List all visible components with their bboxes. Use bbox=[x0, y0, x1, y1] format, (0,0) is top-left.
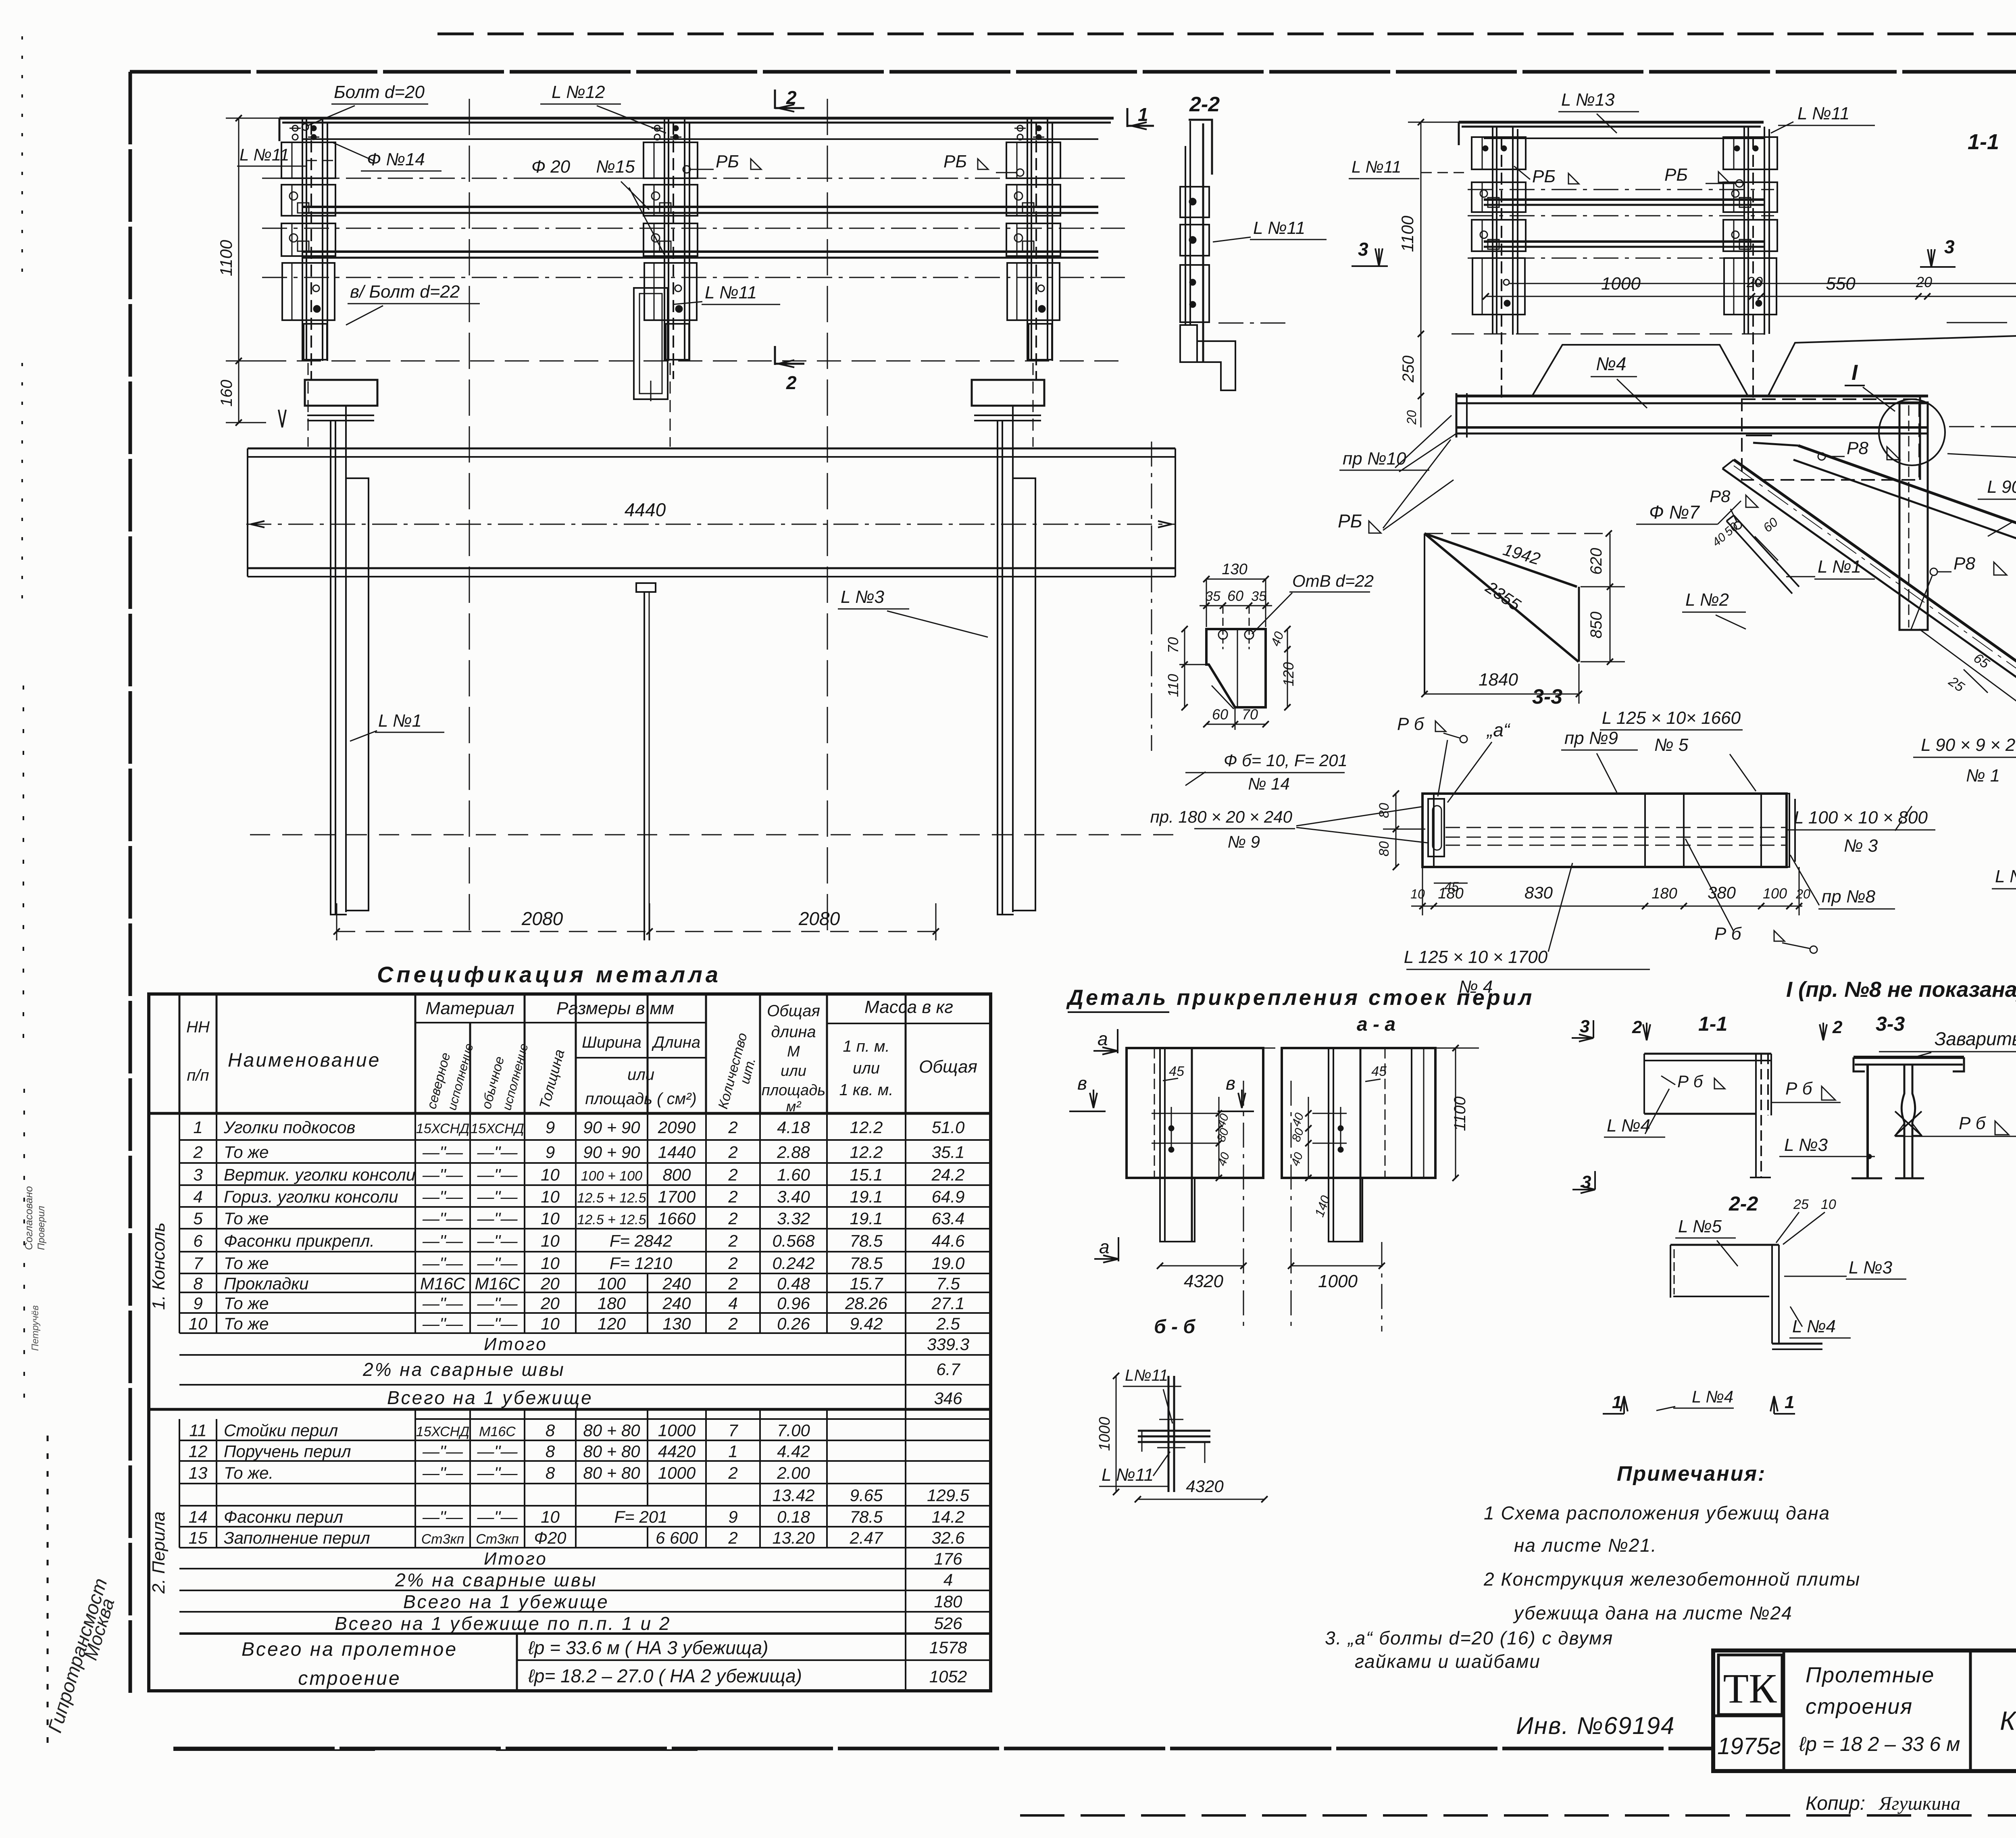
svg-text:6.7: 6.7 bbox=[936, 1360, 960, 1379]
svg-text:М16С: М16С bbox=[475, 1274, 520, 1293]
a-a left post bbox=[1154, 1048, 1155, 1178]
svg-text:L 90 × 9 × 2090: L 90 × 9 × 2090 bbox=[1921, 735, 2016, 755]
sheet outer edge top dashed line bbox=[437, 33, 2016, 35]
svg-text:1: 1 bbox=[193, 1118, 202, 1137]
svg-text:L №4: L №4 bbox=[1607, 1116, 1650, 1136]
section line 1 mark bbox=[1127, 108, 1129, 127]
svg-text:80 + 80: 80 + 80 bbox=[583, 1442, 640, 1461]
svg-text:4.18: 4.18 bbox=[777, 1118, 810, 1137]
plate N14 outline bbox=[1206, 629, 1266, 707]
elevation dashdot tie line 1 bbox=[262, 178, 1125, 179]
svg-text:90 + 90: 90 + 90 bbox=[583, 1118, 640, 1137]
spec table section2 band bbox=[414, 1409, 416, 1419]
svg-text:Р8: Р8 bbox=[1847, 438, 1868, 458]
svg-text:2: 2 bbox=[1832, 1017, 1843, 1037]
svg-text:15.7: 15.7 bbox=[850, 1274, 883, 1293]
svg-text:L №11: L №11 bbox=[1797, 104, 1849, 123]
svg-text:1-1: 1-1 bbox=[1698, 1013, 1727, 1035]
svg-text:НН: НН bbox=[186, 1018, 210, 1036]
svg-text:Уголки подкосов: Уголки подкосов bbox=[223, 1118, 355, 1137]
svg-text:РБ: РБ bbox=[943, 152, 967, 171]
svg-text:или: или bbox=[853, 1059, 880, 1077]
inner frame top bbox=[130, 70, 2016, 74]
svg-text:1000: 1000 bbox=[1318, 1271, 1358, 1291]
1-1 brace end angle piece bbox=[1727, 515, 1799, 594]
detail 1-1 beam bbox=[1644, 1053, 1771, 1055]
svg-text:L №1: L №1 bbox=[1995, 867, 2016, 886]
svg-text:L 125 × 10 × 1700: L 125 × 10 × 1700 bbox=[1404, 947, 1548, 967]
svg-text:Гориз. уголки консоли: Гориз. уголки консоли bbox=[224, 1187, 398, 1206]
svg-text:4420: 4420 bbox=[658, 1442, 696, 1461]
svg-text:2: 2 bbox=[728, 1254, 737, 1273]
svg-text:Ст3кп: Ст3кп bbox=[476, 1532, 519, 1547]
1-1 detail circle I bbox=[1879, 399, 1945, 465]
svg-text:п/п: п/п bbox=[187, 1067, 209, 1084]
svg-text:1578: 1578 bbox=[929, 1638, 967, 1657]
svg-text:пр №9: пр №9 bbox=[1564, 728, 1618, 748]
spec table header lines bbox=[415, 1022, 706, 1023]
svg-text:М: М bbox=[787, 1043, 800, 1060]
svg-text:длина: длина bbox=[771, 1023, 816, 1041]
elevation top rail L12 bbox=[279, 117, 1114, 120]
svg-text:1 кв. м.: 1 кв. м. bbox=[839, 1081, 893, 1099]
svg-text:L №12: L №12 bbox=[552, 82, 605, 102]
svg-text:1: 1 bbox=[728, 1442, 737, 1461]
svg-text:2 Конструкция железобетонной: 2 Конструкция железобетонной плиты bbox=[1483, 1569, 1860, 1590]
section line 2 lower bbox=[774, 346, 776, 365]
svg-text:Копир:: Копир: bbox=[1806, 1793, 1865, 1814]
1-1 console dashed pocket bbox=[1742, 399, 1919, 480]
3-3 stiffener right bbox=[1761, 794, 1789, 867]
inner frame left bbox=[129, 72, 132, 1696]
svg-text:№ 5: № 5 bbox=[1654, 735, 1689, 755]
svg-text:24.2: 24.2 bbox=[931, 1165, 965, 1184]
svg-text:Р8: Р8 bbox=[1954, 554, 1975, 573]
svg-text:Всего на 1 убежище по п.: Всего на 1 убежище по п.п. 1 и 2 bbox=[335, 1613, 671, 1634]
a-a left bolt grid bbox=[1152, 1113, 1219, 1114]
3-3 stiffener mid bbox=[1645, 794, 1684, 867]
plate N14 dim 35 60 35 bbox=[1200, 605, 1272, 606]
column under post3 bbox=[972, 380, 1044, 406]
svg-text:2: 2 bbox=[728, 1274, 737, 1293]
svg-text:12.2: 12.2 bbox=[850, 1118, 883, 1137]
svg-text:9: 9 bbox=[728, 1507, 737, 1526]
svg-text:70: 70 bbox=[1242, 706, 1258, 723]
svg-text:а - а: а - а bbox=[1357, 1014, 1395, 1035]
walkway hidden line bbox=[250, 834, 1173, 836]
1-1 diagonal brace N2 bbox=[1798, 446, 2016, 584]
svg-text:2: 2 bbox=[728, 1528, 737, 1547]
svg-text:ℓр = 33.6 м ( НА 3 убежищ: ℓр = 33.6 м ( НА 3 убежища) bbox=[528, 1637, 768, 1658]
svg-text:3-3: 3-3 bbox=[1532, 685, 1562, 709]
svg-text:убежища дана на листе №24: убежища дана на листе №24 bbox=[1513, 1603, 1793, 1623]
column under post1 bbox=[305, 380, 377, 406]
svg-text:4.42: 4.42 bbox=[777, 1442, 810, 1461]
svg-text:28.26: 28.26 bbox=[845, 1294, 888, 1313]
svg-text:0.568: 0.568 bbox=[772, 1232, 815, 1250]
svg-text:РБ: РБ bbox=[716, 152, 739, 171]
svg-text:2.00: 2.00 bbox=[777, 1463, 810, 1482]
svg-text:240: 240 bbox=[662, 1294, 691, 1313]
svg-text:Пролетные: Пролетные bbox=[1806, 1663, 1935, 1687]
svg-text:0.26: 0.26 bbox=[777, 1314, 810, 1333]
svg-text:№ 14: № 14 bbox=[1248, 774, 1290, 793]
svg-text:7.5: 7.5 bbox=[936, 1274, 960, 1293]
svg-text:L №1: L №1 bbox=[378, 711, 422, 731]
svg-text:Согласовано: Согласовано bbox=[23, 1186, 35, 1250]
svg-text:19.1: 19.1 bbox=[850, 1209, 883, 1228]
svg-text:2.88: 2.88 bbox=[777, 1143, 810, 1162]
svg-text:10: 10 bbox=[541, 1507, 560, 1526]
elevation hanging angle L11 below post2 bbox=[634, 288, 668, 399]
svg-text:100: 100 bbox=[1763, 885, 1787, 902]
svg-text:45: 45 bbox=[1169, 1064, 1184, 1079]
svg-text:44.6: 44.6 bbox=[932, 1232, 965, 1250]
svg-text:2: 2 bbox=[786, 372, 797, 393]
plate N14 right dims 90 120 bbox=[1287, 629, 1288, 707]
svg-text:15ХСНД: 15ХСНД bbox=[416, 1424, 469, 1440]
svg-text:15ХСНД: 15ХСНД bbox=[416, 1121, 469, 1136]
svg-text:13: 13 bbox=[189, 1463, 208, 1482]
svg-text:Ф №14: Ф №14 bbox=[367, 150, 425, 169]
svg-text:Итого: Итого bbox=[484, 1334, 548, 1354]
svg-text:—''—: —''— bbox=[422, 1463, 463, 1482]
svg-text:14: 14 bbox=[189, 1507, 208, 1526]
svg-text:гайками и шайбами: гайками и шайбами bbox=[1355, 1651, 1541, 1672]
1-1 console beam N4 bbox=[1456, 395, 1928, 398]
svg-text:4320: 4320 bbox=[1186, 1477, 1224, 1496]
svg-text:Итого: Итого bbox=[484, 1549, 548, 1569]
svg-text:250: 250 bbox=[1400, 356, 1417, 383]
svg-text:20: 20 bbox=[1916, 274, 1932, 290]
svg-text:L №4: L №4 bbox=[1692, 1387, 1733, 1406]
svg-text:2.47: 2.47 bbox=[850, 1528, 883, 1547]
svg-text:L №3: L №3 bbox=[1849, 1258, 1893, 1277]
svg-text:160: 160 bbox=[218, 380, 235, 407]
triangle bottom dim 1840 bbox=[1425, 694, 1579, 695]
svg-text:1000: 1000 bbox=[1096, 1417, 1113, 1451]
1-1 dashdot ties bbox=[1468, 189, 1774, 190]
a-a right post bbox=[1328, 1048, 1329, 1242]
walkway bottom lines bbox=[248, 567, 1175, 569]
svg-text:620: 620 bbox=[1587, 548, 1605, 575]
svg-text:—''—: —''— bbox=[477, 1187, 518, 1206]
post hidden dashes to walkway bbox=[308, 363, 309, 447]
svg-text:5: 5 bbox=[193, 1209, 203, 1228]
svg-text:13.42: 13.42 bbox=[772, 1486, 814, 1505]
plate N14 left dims 70 110 bbox=[1184, 629, 1185, 707]
svg-text:1840: 1840 bbox=[1479, 670, 1518, 690]
svg-text:№ 3: № 3 bbox=[1844, 836, 1878, 856]
svg-text:7: 7 bbox=[728, 1421, 738, 1440]
svg-text:Поручень перил: Поручень перил bbox=[224, 1442, 351, 1461]
svg-text:78.5: 78.5 bbox=[850, 1232, 883, 1250]
svg-text:2-2: 2-2 bbox=[1189, 93, 1220, 116]
svg-text:F= 1210: F= 1210 bbox=[610, 1254, 673, 1273]
dim 2080 2080 bottom bbox=[337, 931, 936, 932]
svg-text:ℓр = 18 2 – 33 6 м: ℓр = 18 2 – 33 6 м bbox=[1799, 1733, 1960, 1755]
svg-text:7.00: 7.00 bbox=[777, 1421, 810, 1440]
svg-text:Р б: Р б bbox=[1677, 1072, 1704, 1091]
svg-text:830: 830 bbox=[1524, 883, 1553, 902]
spec table 2percent row 1 bbox=[179, 1355, 180, 1385]
svg-text:Проверил: Проверил bbox=[36, 1206, 47, 1250]
svg-text:20: 20 bbox=[1404, 410, 1419, 425]
svg-text:6 600: 6 600 bbox=[656, 1528, 698, 1547]
svg-text:—''—: —''— bbox=[422, 1232, 463, 1250]
svg-text:0.48: 0.48 bbox=[777, 1274, 810, 1293]
svg-text:8: 8 bbox=[546, 1421, 555, 1440]
1-1 bottom dashed bbox=[1452, 333, 1774, 335]
svg-text:70: 70 bbox=[1165, 637, 1181, 653]
svg-text:Фасонки перил: Фасонки перил bbox=[224, 1507, 343, 1526]
svg-text:4: 4 bbox=[943, 1570, 953, 1589]
svg-text:—''—: —''— bbox=[477, 1232, 518, 1250]
svg-text:64.9: 64.9 bbox=[932, 1187, 965, 1206]
svg-text:9: 9 bbox=[193, 1294, 202, 1313]
svg-text:27.1: 27.1 bbox=[931, 1294, 965, 1313]
svg-text:15.1: 15.1 bbox=[850, 1165, 883, 1184]
svg-text:25: 25 bbox=[1793, 1197, 1809, 1212]
svg-text:—''—: —''— bbox=[477, 1507, 518, 1526]
dim 1100 left bbox=[238, 118, 240, 361]
section 2-2 bottom bracket bbox=[1180, 325, 1197, 362]
svg-text:10: 10 bbox=[541, 1209, 560, 1228]
svg-text:Заварить: Заварить bbox=[1935, 1028, 2016, 1049]
svg-text:Прокладки: Прокладки bbox=[224, 1274, 308, 1293]
svg-text:80: 80 bbox=[1377, 803, 1392, 818]
svg-text:Ф20: Ф20 bbox=[534, 1528, 566, 1547]
svg-text:Петручёв: Петручёв bbox=[30, 1305, 41, 1351]
svg-text:Ф №7: Ф №7 bbox=[1649, 502, 1700, 523]
svg-text:90 + 90: 90 + 90 bbox=[583, 1143, 640, 1162]
svg-text:10: 10 bbox=[541, 1187, 560, 1206]
svg-text:Ст3кп: Ст3кп bbox=[421, 1532, 464, 1547]
svg-text:L №1: L №1 bbox=[1818, 557, 1861, 577]
svg-text:—''—: —''— bbox=[422, 1507, 463, 1526]
svg-text:2. Перила: 2. Перила bbox=[149, 1511, 169, 1594]
svg-text:80 + 80: 80 + 80 bbox=[583, 1463, 640, 1482]
svg-text:78.5: 78.5 bbox=[850, 1507, 883, 1526]
svg-text:Р8: Р8 bbox=[1710, 487, 1731, 506]
svg-text:1440: 1440 bbox=[658, 1143, 696, 1162]
svg-text:—''—: —''— bbox=[477, 1165, 518, 1184]
svg-text:—''—: —''— bbox=[422, 1209, 463, 1228]
a-a right bolt grid bbox=[1312, 1113, 1347, 1114]
svg-text:—''—: —''— bbox=[477, 1463, 518, 1482]
svg-text:То же: То же bbox=[224, 1294, 269, 1313]
svg-text:3: 3 bbox=[193, 1165, 202, 1184]
svg-text:L №11: L №11 bbox=[1102, 1465, 1154, 1485]
svg-text:—''—: —''— bbox=[477, 1209, 518, 1228]
1-1 dashdot flange level bbox=[1949, 426, 2016, 427]
svg-text:3.40: 3.40 bbox=[777, 1187, 810, 1206]
spec table rows section 1 bbox=[179, 1139, 991, 1141]
svg-text:346: 346 bbox=[934, 1389, 962, 1408]
svg-text:6: 6 bbox=[193, 1232, 203, 1250]
svg-text:2% на сварные швы: 2% на сварные швы bbox=[362, 1359, 565, 1380]
svg-text:32.6: 32.6 bbox=[932, 1528, 965, 1547]
svg-text:F= 201: F= 201 bbox=[614, 1507, 668, 1526]
svg-text:РБ: РБ bbox=[1664, 165, 1688, 185]
svg-text:10: 10 bbox=[541, 1254, 560, 1273]
1-1 brace N1 centre dash bbox=[1734, 466, 2016, 790]
svg-text:1100: 1100 bbox=[1451, 1096, 1469, 1131]
left margin dotted guide bbox=[21, 36, 23, 282]
svg-text:120: 120 bbox=[598, 1314, 626, 1333]
svg-text:180: 180 bbox=[598, 1294, 626, 1313]
elevation post 3 bbox=[1027, 119, 1028, 361]
svg-text:Деталь прикрепления стоек п: Деталь прикрепления стоек перил bbox=[1066, 986, 1534, 1010]
svg-text:35: 35 bbox=[1251, 589, 1266, 604]
svg-text:10: 10 bbox=[541, 1232, 560, 1250]
svg-text:35.1: 35.1 bbox=[932, 1143, 965, 1162]
svg-text:10: 10 bbox=[1821, 1197, 1836, 1212]
elevation rail B bbox=[303, 250, 1098, 253]
svg-text:3. „а“ болты d=20 (16) с д: 3. „а“ болты d=20 (16) с двумя bbox=[1325, 1628, 1613, 1648]
svg-text:или: или bbox=[781, 1063, 806, 1079]
svg-text:L №3: L №3 bbox=[1784, 1135, 1828, 1155]
svg-text:4: 4 bbox=[728, 1294, 737, 1313]
svg-text:—''—: —''— bbox=[477, 1294, 518, 1313]
svg-text:Р б: Р б bbox=[1397, 714, 1425, 734]
svg-text:1: 1 bbox=[1138, 104, 1148, 125]
svg-text:3-3: 3-3 bbox=[1876, 1013, 1905, 1035]
b-b dim 1000 bbox=[1116, 1376, 1117, 1492]
svg-text:9: 9 bbox=[546, 1143, 555, 1162]
plate N14 bolt holes bbox=[1218, 630, 1227, 639]
svg-text:100: 100 bbox=[598, 1274, 626, 1293]
svg-text:Спецификация металла: Спецификация металла bbox=[377, 962, 721, 987]
svg-text:L №11: L №11 bbox=[705, 283, 757, 302]
svg-text:12.5 + 12.5: 12.5 + 12.5 bbox=[577, 1212, 646, 1227]
svg-text:1.60: 1.60 bbox=[777, 1165, 810, 1184]
a-a right grid dims bbox=[1308, 1097, 1309, 1178]
svg-text:—''—: —''— bbox=[422, 1187, 463, 1206]
svg-text:176: 176 bbox=[934, 1549, 962, 1568]
svg-text:—''—: —''— bbox=[477, 1254, 518, 1273]
b-b dim 4320 bbox=[1138, 1499, 1264, 1500]
svg-text:I (пр. №8 не показана): I (пр. №8 не показана) bbox=[1786, 977, 2016, 1002]
svg-text:2: 2 bbox=[728, 1314, 737, 1333]
triangle right dim 620 850 bbox=[1610, 533, 1611, 662]
svg-text:15ХСНД: 15ХСНД bbox=[471, 1121, 524, 1136]
svg-text:2080: 2080 bbox=[521, 908, 563, 929]
svg-text:9: 9 bbox=[546, 1118, 555, 1137]
svg-text:Всего на 1 убежище: Всего на 1 убежище bbox=[403, 1591, 609, 1612]
a-a beam band left bbox=[1127, 1048, 1263, 1178]
svg-text:15: 15 bbox=[189, 1528, 208, 1547]
svg-text:1100: 1100 bbox=[1398, 215, 1417, 252]
svg-text:526: 526 bbox=[934, 1614, 962, 1633]
svg-text:Материал: Материал bbox=[425, 998, 514, 1018]
a-a left grid dims bbox=[1218, 1097, 1220, 1178]
svg-text:0.18: 0.18 bbox=[777, 1507, 810, 1526]
svg-text:Фасонки прикрепл.: Фасонки прикрепл. bbox=[224, 1232, 375, 1250]
svg-text:13.20: 13.20 bbox=[772, 1528, 815, 1547]
svg-text:130: 130 bbox=[662, 1314, 691, 1333]
svg-text:—''—: —''— bbox=[477, 1314, 518, 1333]
svg-text:80 + 80: 80 + 80 bbox=[583, 1421, 640, 1440]
svg-text:51.0: 51.0 bbox=[932, 1118, 965, 1137]
svg-text:в: в bbox=[1226, 1073, 1235, 1094]
svg-text:L №3: L №3 bbox=[841, 587, 885, 607]
svg-text:—''—: —''— bbox=[422, 1254, 463, 1273]
svg-text:20: 20 bbox=[540, 1294, 560, 1313]
svg-text:2: 2 bbox=[728, 1463, 737, 1482]
svg-text:14.2: 14.2 bbox=[932, 1507, 965, 1526]
svg-text:0.96: 0.96 bbox=[777, 1294, 810, 1313]
svg-text:Стойки перил: Стойки перил bbox=[224, 1421, 338, 1440]
title block outer bbox=[1713, 1650, 2016, 1771]
elevation dashdot tie line 2 bbox=[262, 228, 1125, 229]
svg-text:То же: То же bbox=[224, 1254, 269, 1273]
svg-text:L №13: L №13 bbox=[1561, 90, 1615, 110]
svg-text:площадь: площадь bbox=[762, 1082, 825, 1099]
svg-text:850: 850 bbox=[1587, 612, 1605, 639]
section 2-2 post bbox=[1189, 120, 1212, 175]
1-1 post right bbox=[1743, 127, 1745, 334]
svg-text:1. Консоль: 1. Консоль bbox=[149, 1223, 169, 1310]
svg-text:Инв. №69194: Инв. №69194 bbox=[1516, 1712, 1675, 1739]
svg-text:100 + 100: 100 + 100 bbox=[581, 1169, 642, 1184]
svg-text:Болт d=20: Болт d=20 bbox=[334, 82, 425, 102]
title block project cell bbox=[1969, 1650, 1972, 1771]
svg-text:Наименование: Наименование bbox=[228, 1050, 381, 1071]
svg-text:Заполнение перил: Заполнение перил bbox=[224, 1528, 370, 1547]
svg-text:То же.: То же. bbox=[224, 1463, 273, 1482]
svg-text:8: 8 bbox=[546, 1463, 555, 1482]
b-b cross bbox=[1138, 1430, 1210, 1432]
svg-text:7: 7 bbox=[193, 1254, 203, 1273]
svg-text:10: 10 bbox=[541, 1314, 560, 1333]
svg-text:РБ: РБ bbox=[1338, 511, 1362, 531]
svg-text:—''—: —''— bbox=[422, 1294, 463, 1313]
axis dashdot below 2-2 bbox=[1151, 442, 1152, 751]
svg-text:ТК: ТК bbox=[1723, 1665, 1777, 1712]
svg-text:9.42: 9.42 bbox=[850, 1314, 883, 1333]
svg-text:11: 11 bbox=[189, 1421, 207, 1440]
svg-text:2090: 2090 bbox=[658, 1118, 696, 1137]
middle hanger rod bbox=[636, 583, 656, 592]
svg-text:4320: 4320 bbox=[1184, 1271, 1223, 1291]
svg-text:Общая: Общая bbox=[919, 1057, 977, 1077]
svg-text:339.3: 339.3 bbox=[927, 1335, 969, 1354]
svg-text:2: 2 bbox=[728, 1187, 737, 1206]
svg-text:1-1: 1-1 bbox=[1968, 130, 1999, 154]
svg-text:63.4: 63.4 bbox=[932, 1209, 965, 1228]
svg-text:РБ: РБ bbox=[1532, 167, 1556, 186]
svg-text:—''—: —''— bbox=[422, 1165, 463, 1184]
svg-text:на листе №21.: на листе №21. bbox=[1514, 1535, 1657, 1556]
svg-text:2-2: 2-2 bbox=[1729, 1192, 1758, 1215]
spec table header verticals bbox=[179, 994, 181, 1113]
svg-text:1 п. м.: 1 п. м. bbox=[843, 1038, 889, 1055]
3-3 beam outline bbox=[1422, 794, 1787, 867]
elevation post 2 bbox=[664, 119, 665, 361]
elevation rail A bbox=[303, 206, 1098, 208]
elevation rail lower edge bbox=[302, 138, 1098, 140]
svg-text:№4: №4 bbox=[1596, 353, 1626, 374]
svg-text:180: 180 bbox=[934, 1592, 962, 1611]
svg-text:ℓр= 18.2 – 27.0 ( НА 2 у: ℓр= 18.2 – 27.0 ( НА 2 убежища) bbox=[528, 1665, 802, 1686]
elevation post 1 bbox=[302, 119, 303, 361]
svg-text:2.5: 2.5 bbox=[936, 1314, 960, 1333]
svg-text:Ф 20: Ф 20 bbox=[531, 157, 571, 177]
svg-text:То же: То же bbox=[224, 1143, 269, 1162]
svg-text:3: 3 bbox=[1944, 236, 1955, 257]
svg-text:2: 2 bbox=[786, 87, 797, 108]
